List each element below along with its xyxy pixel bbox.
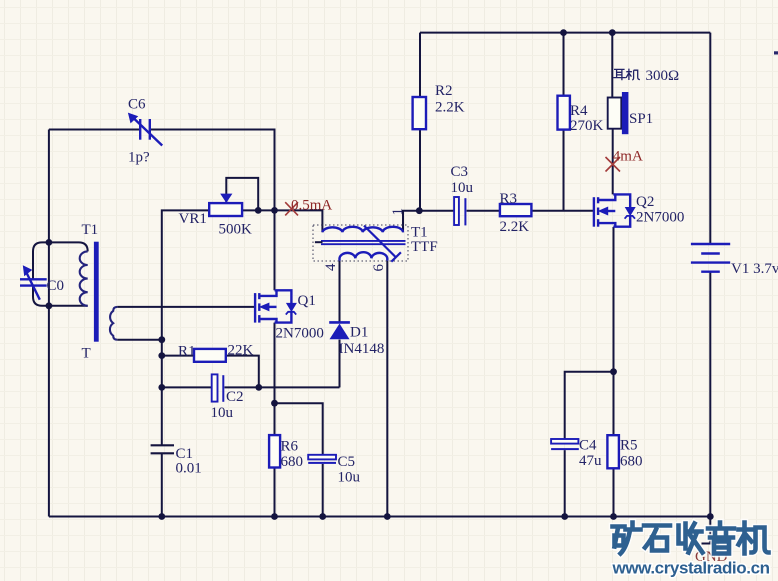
wire: transformer right pin riser to R2/C3 node xyxy=(403,211,419,233)
svg-text:VR1: VR1 xyxy=(179,211,207,227)
svg-text:270K: 270K xyxy=(570,118,604,134)
junction: tank top node xyxy=(46,239,53,246)
svg-text:T1: T1 xyxy=(82,222,99,238)
MARKERS xyxy=(285,149,643,216)
junction: C2 right / R1 / D1 node xyxy=(255,384,262,391)
svg-text:R1: R1 xyxy=(178,344,196,360)
wire: Q1 drain/source external vertical with R6 to rail xyxy=(274,323,276,436)
wire: C6 right horizontal + vertical down to Q1 drain xyxy=(151,130,275,291)
wire: battery branch top xyxy=(709,33,711,244)
node marker 4mA (red cross) xyxy=(606,157,621,172)
speaker SP1 (earphone) xyxy=(608,92,629,134)
ground GND power port xyxy=(695,517,728,566)
junction: rail C5 xyxy=(319,513,326,520)
transformer T1 TTF core left stub xyxy=(315,241,323,243)
wire: left rail vertical from C6 line down to ground rail xyxy=(48,130,50,517)
junction: rail C4 xyxy=(561,513,568,520)
wire: transformer pin4 to D1 cathode xyxy=(339,261,341,322)
wire: tank loop top (C0 to coil) xyxy=(33,242,88,279)
wire: R4 branch vertical top xyxy=(563,33,565,96)
resistor R1 xyxy=(194,349,226,362)
svg-text:R5: R5 xyxy=(620,438,638,454)
transformer T1 TTF core lines xyxy=(321,241,406,244)
transformer T1 TTF secondary winding xyxy=(340,252,388,260)
junction: Q1 source / C5 tap xyxy=(271,400,278,407)
svg-text:0.01: 0.01 xyxy=(176,461,202,477)
svg-text:R6: R6 xyxy=(281,439,299,455)
svg-text:C2: C2 xyxy=(226,389,244,405)
svg-text:C5: C5 xyxy=(338,454,356,470)
wire: SP1 bottom to Q2 drain xyxy=(612,128,614,194)
wire: tank loop bottom xyxy=(33,286,88,306)
capacitor C3 (10u polarized) xyxy=(454,197,466,225)
wire: C5 tap from Q1 source line xyxy=(275,403,323,455)
capacitor C0 (variable, antenna tank) xyxy=(20,266,47,300)
wire: D1 anode riser xyxy=(339,340,341,388)
svg-text:2.2K: 2.2K xyxy=(500,219,530,235)
capacitor C4 (47u polarized) xyxy=(551,439,579,450)
svg-text:2.2K: 2.2K xyxy=(435,100,465,116)
junction: VR1 wiper tie xyxy=(255,207,262,214)
resistor R3 xyxy=(500,204,532,216)
resistor R5 xyxy=(607,435,619,468)
svg-text:2N7000: 2N7000 xyxy=(636,210,684,226)
wire: top power rail xyxy=(420,32,710,34)
wire: R3 to Q2 gate xyxy=(531,210,594,212)
wire: Q2 source down to rail xyxy=(613,227,615,517)
wire: R1 left connection xyxy=(162,355,194,357)
svg-text:2N7000: 2N7000 xyxy=(276,326,324,342)
battery V1 xyxy=(691,244,730,272)
watermark logo text (Chinese) white halo xyxy=(613,523,769,554)
svg-text:D1: D1 xyxy=(350,325,368,341)
capacitor C5 (10u) xyxy=(308,455,336,464)
capacitor C6 (variable feedback) xyxy=(129,113,163,145)
svg-text:6: 6 xyxy=(371,264,387,272)
wire: VR1 right terminal to transformer pin riser xyxy=(242,210,322,232)
potentiometer VR1 xyxy=(209,194,242,216)
junction: rail R6 xyxy=(271,513,278,520)
svg-text:10u: 10u xyxy=(451,180,474,196)
wire: R2 branch vertical xyxy=(419,33,421,97)
junction: VR1 node to Q1 drain line xyxy=(271,207,278,214)
svg-text:22K: 22K xyxy=(228,343,254,359)
wire: VR1 left terminal down the mid-left vertical to C1 xyxy=(162,210,209,445)
junction: rail battery/GND xyxy=(707,513,714,520)
junction: Q2 source / C4 tap xyxy=(610,368,617,375)
wire: R1 right connection down to C2 net xyxy=(226,356,259,388)
edge tick (screenshot artifact) xyxy=(774,51,778,54)
junction: R1 left tie xyxy=(158,352,165,359)
svg-text:Q1: Q1 xyxy=(298,293,316,309)
svg-text:C4: C4 xyxy=(579,438,597,454)
wire: C2 left connection xyxy=(162,386,212,388)
svg-text:C3: C3 xyxy=(451,164,469,180)
svg-text:4: 4 xyxy=(323,263,339,271)
wire: C4 bottom to rail xyxy=(564,450,566,516)
wire: node to C3 left plate xyxy=(419,210,454,212)
svg-text:SP1: SP1 xyxy=(629,111,653,127)
junction: rail C1 xyxy=(158,513,165,520)
resistor R6 xyxy=(269,435,280,467)
junction: tank bottom node xyxy=(46,302,53,309)
wire: R4 bottom to gate wire xyxy=(563,130,565,211)
svg-text:IN4148: IN4148 xyxy=(339,341,385,357)
transformer T1 TTF: dotted selection box xyxy=(313,225,408,261)
wire: SP1 branch vertical top xyxy=(611,33,613,98)
svg-text:T: T xyxy=(82,346,91,362)
svg-text:1p?: 1p? xyxy=(128,150,150,166)
watermark logo text (Chinese) blue strokes xyxy=(613,523,769,554)
junction: C2 left tie xyxy=(158,384,165,391)
transformer T1 secondary winding xyxy=(110,307,117,340)
transformer T1 TTF primary winding xyxy=(322,227,403,232)
transformer T1 TTF adjust arrow xyxy=(364,226,401,262)
junction: rail pin6 xyxy=(384,513,391,520)
diode D1 (IN4148) xyxy=(329,322,350,339)
transformer T1 (antenna coil): primary winding xyxy=(80,251,88,305)
junction: R2/C3/T1 node xyxy=(416,207,423,214)
svg-text:680: 680 xyxy=(281,454,304,470)
svg-text:300Ω: 300Ω xyxy=(646,68,680,84)
wire: antenna secondary top to Q1 gate xyxy=(117,306,255,308)
svg-text:R3: R3 xyxy=(500,191,518,207)
transistor Q2 (2N7000 MOSFET) xyxy=(594,194,635,226)
svg-text:C0: C0 xyxy=(47,278,65,294)
capacitor C1 (0.01) xyxy=(151,445,174,453)
wire: battery bottom to rail xyxy=(709,272,711,517)
svg-text:www.crystalradio.cn: www.crystalradio.cn xyxy=(612,559,770,578)
svg-text:Q2: Q2 xyxy=(636,194,654,210)
wire: antenna secondary bottom to left vertical xyxy=(117,339,162,341)
svg-text:R2: R2 xyxy=(435,83,453,99)
svg-text:1: 1 xyxy=(390,208,406,216)
svg-text:10u: 10u xyxy=(338,470,361,486)
wire: R6 bottom to rail xyxy=(274,468,276,517)
node marker 0.5mA (red cross) xyxy=(285,202,298,215)
wire: C4 tap from Q2 source line xyxy=(565,372,614,440)
wire: mid-left vertical below C1 to rail xyxy=(161,454,163,517)
wire: R2 bottom to node xyxy=(419,129,421,211)
svg-text:V1 3.7v: V1 3.7v xyxy=(731,261,778,277)
svg-text:C6: C6 xyxy=(128,97,146,113)
wire: C5 bottom to rail xyxy=(322,464,324,517)
wire: C6 left horizontal segment xyxy=(49,129,139,131)
svg-text:R4: R4 xyxy=(570,103,588,119)
svg-text:0.5mA: 0.5mA xyxy=(291,198,332,214)
svg-text:500K: 500K xyxy=(219,222,253,238)
junction: top rail R4 tap xyxy=(560,29,567,36)
resistor R2 xyxy=(413,97,426,129)
wire: C2 right to D1 anode riser xyxy=(225,386,340,388)
transformer T1 core bar xyxy=(94,242,99,342)
wire: VR1 wiper loop xyxy=(226,178,258,211)
capacitor C2 (10u polarized) xyxy=(212,374,225,401)
WATERMARK xyxy=(612,523,770,578)
wire: C3 right plate to R3 xyxy=(467,210,500,212)
junction: top rail SP1 tap xyxy=(609,29,616,36)
wire: transformer pin6 down to rail xyxy=(386,261,388,517)
junction: rail R5/Q2 xyxy=(610,513,617,520)
resistor R4 xyxy=(558,96,570,130)
junction: secondary bottom tie xyxy=(158,336,165,343)
wire: bottom ground rail xyxy=(49,516,710,518)
transistor Q1 (2N7000 MOSFET) xyxy=(255,290,296,322)
svg-text:4mA: 4mA xyxy=(613,149,643,165)
svg-text:47u: 47u xyxy=(579,453,602,469)
svg-text:10u: 10u xyxy=(211,405,234,421)
svg-text:TTF: TTF xyxy=(411,239,438,255)
label earphone (Chinese) xyxy=(613,69,640,81)
svg-text:680: 680 xyxy=(620,454,643,470)
